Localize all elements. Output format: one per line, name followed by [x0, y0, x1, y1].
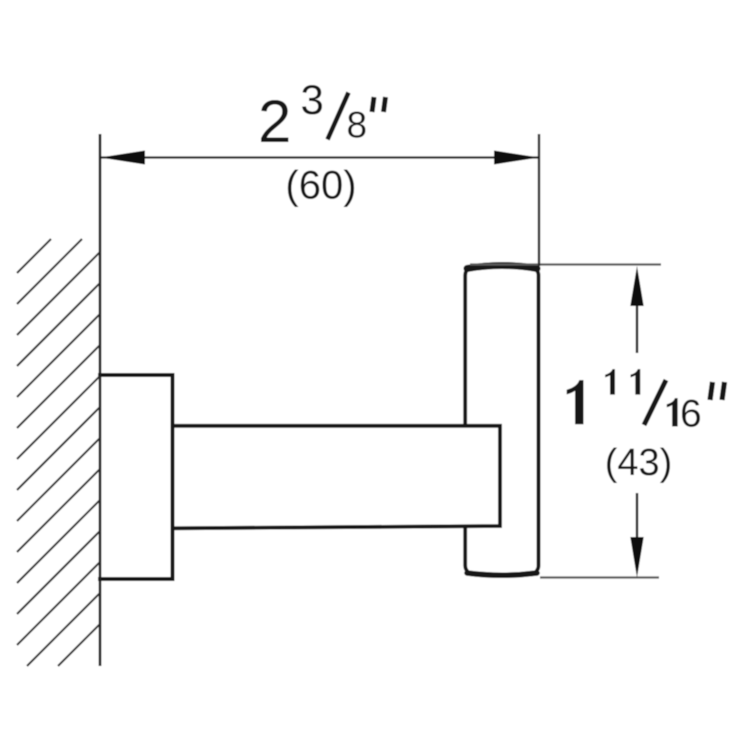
arm (horizontal bar)	[173, 426, 501, 529]
svg-text:8: 8	[347, 105, 368, 146]
wall line (also left extension line)	[99, 134, 102, 666]
bottom extension line (from bar bottom, right)	[540, 576, 659, 578]
label 1 11/16 inch	[567, 369, 725, 435]
vertical dimension line (upper segment)	[636, 300, 638, 353]
top extension line (from bar top, right)	[470, 263, 661, 265]
wall hatching	[17, 239, 100, 666]
svg-text:3: 3	[301, 76, 324, 123]
vertical dimension line (lower segment)	[636, 493, 638, 540]
svg-text:6: 6	[680, 393, 702, 436]
label 2 3/8 inch	[258, 76, 386, 155]
mounting bar (vertical rounded post)	[465, 266, 538, 576]
svg-text:(43): (43)	[605, 442, 673, 484]
svg-text:(60): (60)	[285, 163, 356, 207]
up arrowhead	[630, 266, 643, 306]
left arrowhead	[100, 151, 145, 165]
horizontal dimension line	[100, 156, 539, 158]
wall plate	[98, 375, 173, 579]
right extension line of top dimension	[538, 134, 540, 266]
svg-text:2: 2	[258, 88, 291, 155]
down arrowhead	[630, 537, 643, 578]
right arrowhead	[494, 151, 539, 165]
